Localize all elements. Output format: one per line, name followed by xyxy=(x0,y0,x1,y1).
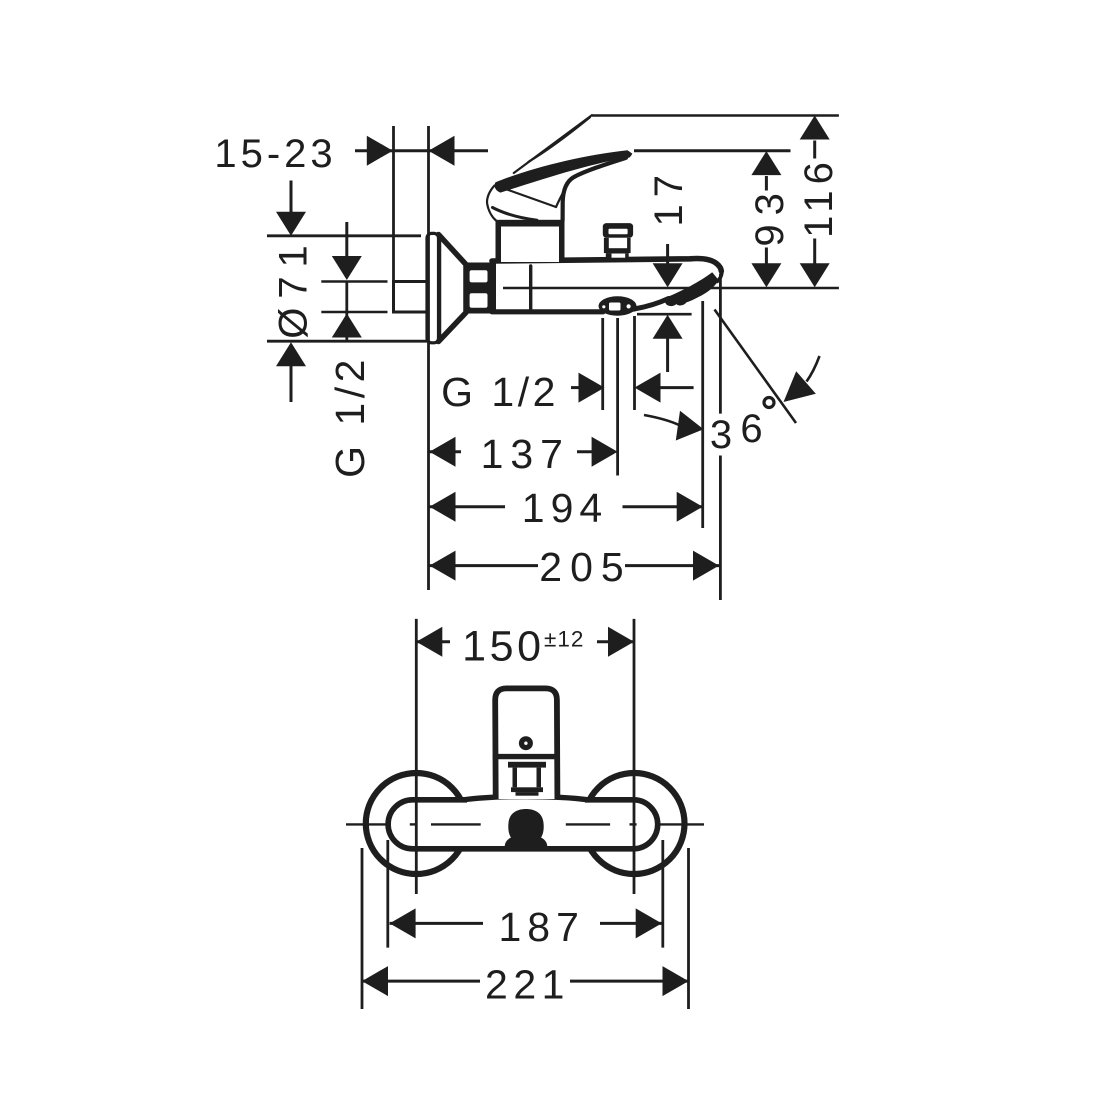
pipe dim line middle xyxy=(345,282,348,342)
wall line outer xyxy=(392,126,395,281)
lever raised ghost outline xyxy=(514,115,592,173)
arrow 221 right xyxy=(663,966,689,996)
arrow 205 left xyxy=(430,551,456,581)
svg-text:93: 93 xyxy=(748,184,792,247)
arrow 116 down xyxy=(800,263,830,287)
hose outlet xyxy=(599,296,637,316)
spout tip face xyxy=(717,272,722,282)
svg-text:137: 137 xyxy=(481,431,570,477)
221 dim line xyxy=(362,980,480,983)
arrow 116 up xyxy=(800,116,830,140)
svg-text:205: 205 xyxy=(539,544,631,590)
svg-text:±12: ±12 xyxy=(544,627,584,652)
body capsule xyxy=(388,800,658,849)
union nut threads xyxy=(464,263,496,314)
ext line outlet right xyxy=(633,316,636,410)
arrow 93 up xyxy=(751,151,781,175)
svg-text:17: 17 xyxy=(647,168,691,227)
extension line lever raised xyxy=(592,114,839,117)
arrow 137 right xyxy=(592,437,618,467)
lever facet lines xyxy=(499,187,557,208)
svg-text:Ø71: Ø71 xyxy=(272,236,316,339)
36deg leader arc left xyxy=(644,415,679,425)
arrow 187 left xyxy=(390,908,416,938)
221 ext line right xyxy=(687,848,690,1009)
extension line lever rest right xyxy=(634,149,791,152)
205 dim line xyxy=(430,564,539,567)
194 dim line xyxy=(430,505,506,508)
187 dim line xyxy=(390,922,483,925)
svg-text:15-23: 15-23 xyxy=(214,132,336,176)
diverter knob xyxy=(603,223,633,238)
116 dim shafts xyxy=(813,141,816,159)
arrow 205 right xyxy=(693,551,719,581)
187 ext line right xyxy=(661,840,664,948)
36deg leader arc right xyxy=(807,356,820,382)
outlet front blob xyxy=(505,809,548,851)
dia71 bottom line xyxy=(267,340,429,343)
ext line spout tip upper xyxy=(719,274,722,414)
pipe dim shaft xyxy=(345,222,348,257)
arrow 36deg left leader xyxy=(676,411,704,441)
left wall escutcheon circle xyxy=(366,773,467,874)
body bottom edge xyxy=(492,309,603,314)
arrow 194 right xyxy=(677,492,703,522)
arrow pipe up xyxy=(332,314,362,338)
lever lower edge and neck xyxy=(563,158,626,221)
150 dim line xyxy=(416,640,450,643)
pipe top tick xyxy=(321,280,387,283)
pipe stub xyxy=(394,282,429,313)
dim line 15-23 xyxy=(355,149,488,152)
centerline dashes xyxy=(346,823,704,825)
36deg diagonal xyxy=(715,310,797,424)
handle screw dot xyxy=(519,736,533,750)
arrow dia71 down xyxy=(276,212,306,236)
arrow 93 down xyxy=(751,263,781,287)
arrow 194 left xyxy=(430,492,456,522)
lever handle xyxy=(495,150,633,192)
escutcheon face plate xyxy=(427,233,439,342)
G12 dim line xyxy=(571,386,579,389)
body capsule top bulge xyxy=(467,796,585,803)
221 ext line left xyxy=(361,848,364,1009)
svg-text:G 1/2: G 1/2 xyxy=(327,355,373,478)
arrow G12 left xyxy=(579,373,605,403)
187 ext line left xyxy=(386,840,389,948)
svg-text:3: 3 xyxy=(710,413,732,457)
svg-text:150: 150 xyxy=(462,623,545,671)
arrow 15-23 left xyxy=(367,136,393,166)
93 dim shafts xyxy=(765,176,768,191)
right wall escutcheon circle xyxy=(584,773,685,874)
svg-text:6: 6 xyxy=(740,407,762,451)
arrow 221 left xyxy=(362,966,388,996)
body joint line xyxy=(529,266,532,309)
escutcheon cone xyxy=(439,235,467,342)
arrow 150 left xyxy=(416,627,442,657)
centerline axis xyxy=(503,287,839,289)
ext line spout tip lower xyxy=(719,456,722,601)
spout bottom tick xyxy=(637,313,692,316)
arrow 17 up xyxy=(653,315,683,339)
ext line spout bottom xyxy=(701,301,704,528)
arrow 36deg right leader xyxy=(784,371,816,402)
pipe bottom tick xyxy=(321,311,387,314)
dia71 arrow shaft bottom xyxy=(290,365,293,402)
body fill xyxy=(494,258,718,312)
arrowheads xyxy=(276,116,830,997)
wall line inner xyxy=(427,126,430,590)
handle base block xyxy=(497,223,563,262)
handle divider line xyxy=(493,754,559,759)
arrow 150 right xyxy=(608,627,634,657)
svg-text:G 1/2: G 1/2 xyxy=(441,369,559,415)
arrow 137 left xyxy=(430,437,456,467)
spout mouth beak xyxy=(665,272,719,306)
150 ext line left xyxy=(415,619,418,894)
arrow pipe down xyxy=(332,256,362,280)
svg-text:187: 187 xyxy=(498,904,584,950)
spout underside xyxy=(633,299,669,310)
arrow 187 right xyxy=(636,908,662,938)
cartridge collar xyxy=(508,762,546,768)
arrow G12 right xyxy=(635,373,661,403)
137 dim line xyxy=(430,450,462,453)
150 ext line right xyxy=(633,619,636,894)
arrow 17 down xyxy=(653,263,683,287)
dia71 arrow shaft top xyxy=(290,181,293,214)
ext line outlet left xyxy=(601,318,604,410)
arrow dia71 up xyxy=(276,342,306,366)
label degree circle xyxy=(764,398,774,408)
ext line outlet center xyxy=(616,318,619,476)
svg-text:194: 194 xyxy=(522,485,608,531)
svg-text:221: 221 xyxy=(485,961,570,1007)
dia71 top line xyxy=(267,234,421,237)
17 dim shafts xyxy=(666,244,669,264)
body top edge xyxy=(492,258,721,271)
handle front xyxy=(495,688,557,799)
arrow 15-23 right xyxy=(429,136,455,166)
svg-text:116: 116 xyxy=(797,156,841,238)
